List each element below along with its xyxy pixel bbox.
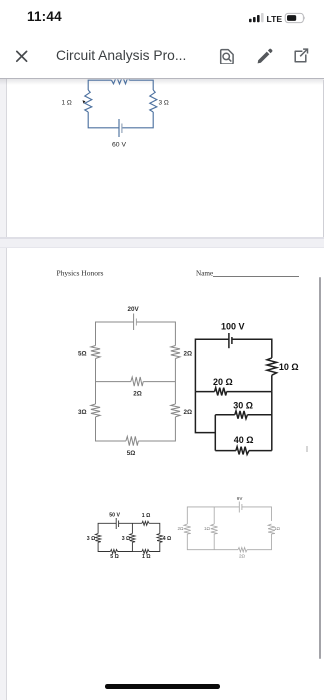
wire: top-right segment [130,80,154,90]
resistor R18 1Ω (bottom right) [142,550,149,554]
battery V3 100V [228,333,230,348]
wire: 40Ω bottom right part [249,450,272,452]
svg-text:1 Ω: 1 Ω [142,554,151,560]
wire: left mid [96,359,131,382]
battery V2 20V [133,314,135,331]
status bar right cluster [243,8,313,28]
icon: pencil edit [258,49,273,64]
wire: top-left to battery [98,523,116,533]
resistor R17 5Ω (bottom left) [110,550,117,554]
wire: bottom-left [96,417,126,441]
svg-text:40 Ω: 40 Ω [234,435,254,445]
wire: mid to right [143,381,175,383]
toolbar [0,40,324,64]
gap band top edge [0,237,324,239]
resistor R16 1Ω (top right horizontal) [142,521,149,525]
wire: left stub down and right [195,392,215,433]
wire: 30Ω branch right part [247,414,271,416]
battery V5 9V [238,502,240,513]
battery V4 50V [115,518,117,529]
resistor R10 20Ω [215,388,227,396]
wire: middle vertical top [131,523,133,533]
resistor R-top (clipped zigzag) [112,76,130,83]
page 1 right edge line [323,80,324,237]
scrollbar [319,277,321,659]
status bar + toolbar white background [0,0,324,64]
name underline [213,275,299,277]
home indicator [105,684,220,689]
battery body [285,13,303,22]
cellular signal bars [249,13,264,22]
svg-text:Physics Honors: Physics Honors [57,269,104,278]
svg-text:100 V: 100 V [221,321,245,331]
viewer background gray strip (left) [0,78,6,700]
icon: open in new [295,49,307,62]
wire: bottom-right corner [149,542,160,551]
svg-text:10 Ω: 10 Ω [279,362,299,372]
wire: top-left [195,339,229,391]
wire: middle vertical top [213,507,215,524]
resistor R9 10Ω [267,358,277,375]
icon: close X [17,51,27,61]
resistor R13 3Ω (left) [95,534,100,543]
wire: left mid junction [95,382,97,404]
svg-text:2Ω: 2Ω [184,350,193,357]
wire: battery to top-right [242,507,272,521]
icon: search in document [221,50,233,64]
page 1 top edge shadow [0,79,324,85]
resistor R12 40Ω [236,447,249,455]
wire: 20Ω branch left part [195,391,214,393]
svg-text:5Ω: 5Ω [127,450,136,457]
svg-text:3 Ω: 3 Ω [122,536,131,542]
resistor R15 4Ω (right) [157,534,162,543]
svg-text:5Ω: 5Ω [78,350,87,357]
current arrow at R1 [83,100,86,103]
wire: top-left segment [88,80,111,90]
svg-text:LTE: LTE [267,14,283,24]
battery nub [303,16,306,19]
wire: right side lower [122,112,153,128]
svg-text:1 Ω: 1 Ω [142,513,151,519]
resistor R1 1Ω (left) [85,90,92,112]
wire: middle vertical bottom [213,534,215,550]
svg-text:50 V: 50 V [109,512,120,518]
wire: nested left side [214,415,216,451]
resistor R8 5Ω (bottom horizontal) [126,436,138,445]
resistor R5 2Ω (middle horizontal) [131,377,143,386]
wire: 30Ω branch left part [215,414,235,416]
svg-text:3 Ω: 3 Ω [87,536,96,542]
wire: right upper [271,375,273,391]
wire: right mid junction [174,359,176,405]
svg-text:5 Ω: 5 Ω [110,554,119,560]
wire: battery to top-right [136,322,175,346]
stray mark: tiny I cursor [306,446,308,452]
resistor R2 3Ω (right) [150,90,157,112]
gap band between pages [0,237,324,249]
svg-text:2Ω: 2Ω [178,526,185,531]
resistor R21 1Ω (right) [268,524,275,534]
page left border [6,78,8,700]
wire: left bottom [98,542,110,551]
svg-text:20V: 20V [128,306,140,313]
resistor R6 3Ω (left bottom) [91,404,100,417]
status bar time [27,9,62,24]
wire: bottom-right [247,534,271,550]
svg-text:9V: 9V [237,496,244,501]
resistor R19 2Ω (left) [184,524,191,534]
svg-text:60 V: 60 V [112,141,126,148]
resistor R14 3Ω (middle) [130,534,135,543]
wire: left bottom [187,534,238,550]
resistor R7 2Ω (right bottom) [171,404,180,417]
wire: right lower [271,392,273,451]
resistor R11 30Ω [235,411,248,419]
wire: top-right corner [149,523,160,533]
svg-text:2Ω: 2Ω [133,390,142,397]
svg-text:30 Ω: 30 Ω [233,401,253,411]
wire: battery to middle top [119,522,142,524]
gap band bottom edge [0,247,324,248]
svg-text:2Ω: 2Ω [184,409,193,416]
svg-text:Circuit Analysis Pro...: Circuit Analysis Pro... [56,48,186,63]
svg-text:3Ω: 3Ω [78,409,87,416]
svg-text:3 Ω: 3 Ω [159,100,169,107]
svg-text:20 Ω: 20 Ω [213,377,233,387]
svg-text:1 Ω: 1 Ω [62,100,72,107]
wire: top-right [232,339,272,358]
wire: bottom middle to 1Ω [132,551,142,553]
battery charge fill [287,15,296,21]
resistor R20 1Ω (middle) [211,524,218,534]
battery V1 60V [118,119,120,137]
wire: 20Ω branch right part [227,391,272,393]
svg-text:4 Ω: 4 Ω [163,536,172,542]
wire: 40Ω bottom left part [215,450,236,452]
resistor R3 5Ω [91,346,100,359]
wire: top-left to battery [96,322,134,346]
svg-text:1Ω: 1Ω [204,526,211,531]
wire: top-left to battery [187,507,239,524]
wire: left side lower [88,112,118,128]
svg-text:1Ω: 1Ω [274,526,281,531]
svg-text:2Ω: 2Ω [239,554,246,559]
wire: bottom-right [138,417,175,441]
resistor R22 2Ω (bottom) [238,548,247,552]
resistor R4 2Ω (right top) [171,346,180,359]
wire: bottom middle [118,542,133,551]
svg-text:Name: Name [196,270,213,278]
page 1 top edge line [0,78,324,79]
